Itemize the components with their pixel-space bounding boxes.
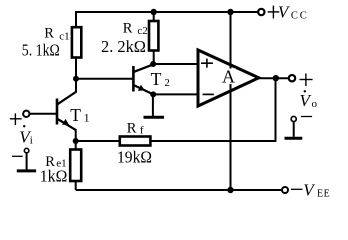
svg-text:T: T: [151, 69, 162, 89]
label +Vcc: [268, 3, 309, 22]
svg-text:2. 2kΩ: 2. 2kΩ: [101, 37, 146, 56]
node top rail at Rc2 junction dot: [151, 9, 157, 15]
svg-text:R: R: [127, 120, 137, 136]
wire Rc1 bottom to T1 collector: [75, 59, 77, 93]
label Vi: [19, 125, 33, 147]
node output junction dot: [273, 75, 279, 81]
svg-text:T: T: [70, 105, 81, 125]
label Vo: [300, 90, 318, 110]
label T1: [70, 105, 89, 125]
wire top rail +Vcc: [76, 11, 257, 13]
svg-text:i: i: [30, 135, 33, 147]
svg-text:c1: c1: [59, 31, 69, 43]
svg-text:1kΩ: 1kΩ: [40, 167, 68, 186]
transistor Q T2: [133, 64, 153, 94]
svg-text:R: R: [44, 26, 54, 42]
svg-text:19kΩ: 19kΩ: [117, 147, 152, 166]
ground T2 emitter: [144, 94, 165, 117]
label -Vee: [291, 180, 330, 199]
wire T2 collector to amp + input: [153, 63, 197, 65]
svg-text:c2: c2: [137, 25, 147, 37]
node T2 emitter junction dot: [150, 91, 156, 97]
svg-text:1: 1: [84, 110, 90, 124]
label input - sign: [12, 155, 23, 157]
label Rc1: [44, 26, 69, 43]
wire Vcc/Vee vertical through amplifier: [230, 12, 232, 190]
label A: [222, 67, 237, 87]
terminal output - circle: [291, 116, 296, 121]
terminal input - circle: [24, 148, 29, 153]
resistor Re1: [70, 141, 81, 190]
wire amp output: [258, 77, 288, 79]
wire T2 emitter to amp - input: [153, 93, 197, 95]
node top rail Vcc line junction dot: [227, 9, 233, 15]
terminal output + circle: [289, 75, 295, 81]
svg-text:5. 1kΩ: 5. 1kΩ: [22, 41, 60, 60]
resistor Rf: [120, 137, 151, 146]
label amp + input: [201, 59, 213, 68]
svg-text:CC: CC: [291, 10, 309, 21]
svg-text:R: R: [123, 20, 133, 36]
svg-text:o: o: [312, 98, 318, 110]
label Rc2: [123, 20, 148, 37]
node bottom rail junction dot: [227, 187, 233, 193]
label amp - input: [203, 93, 214, 95]
label Re1: [45, 154, 66, 170]
svg-text:EE: EE: [317, 188, 330, 199]
wire feedback Rf right to output: [151, 140, 276, 142]
svg-text:2: 2: [164, 77, 170, 89]
resistor Rc2: [149, 12, 158, 64]
node T1 emitter junction dot: [73, 138, 79, 144]
ground output: [285, 122, 303, 139]
op-amp U A triangle: [198, 50, 259, 106]
svg-text:A: A: [222, 67, 235, 87]
terminal +Vcc circle: [258, 9, 264, 15]
label T2: [151, 69, 170, 89]
wire input to T1 base: [30, 113, 57, 115]
terminal -Vee circle: [282, 187, 288, 193]
wire output vertical down to feedback: [275, 78, 277, 142]
label output + sign: [300, 74, 313, 87]
resistor Rc1: [72, 27, 81, 57]
label input + sign: [10, 113, 22, 125]
node T2 collector junction dot: [150, 61, 156, 67]
node T1 collector to T2 base junction dot: [73, 76, 79, 82]
wire bottom rail -Vee: [76, 189, 282, 191]
svg-text:f: f: [140, 125, 144, 137]
label Rf: [127, 120, 144, 136]
terminal input + circle: [23, 111, 29, 117]
wire T1 collector to T2 base: [76, 78, 132, 80]
wire feedback Rf left: [76, 140, 119, 142]
transistor Q T1: [57, 92, 77, 142]
ground input: [17, 153, 36, 171]
node junction top rail at Rc1 column: [75, 11, 77, 27]
label output - sign: [301, 116, 312, 118]
